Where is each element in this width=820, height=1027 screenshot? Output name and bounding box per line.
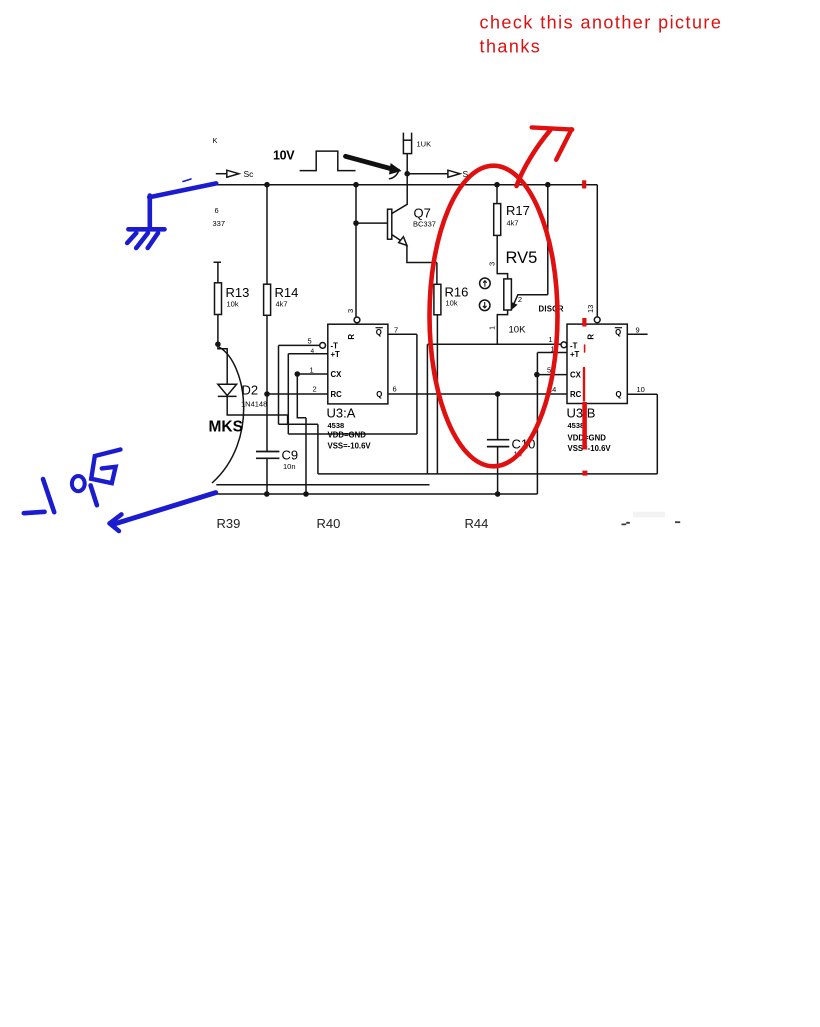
blue ground lead xyxy=(149,183,216,197)
svg-text:10: 10 xyxy=(637,385,645,394)
node dot top bus R17 xyxy=(494,182,500,188)
wire Q7 emitter to R16 xyxy=(392,235,437,285)
svg-text:6: 6 xyxy=(215,206,219,215)
svg-text:Q: Q xyxy=(376,390,382,399)
op-amp U3:A box xyxy=(328,324,388,404)
node dot R13 bottom xyxy=(215,341,221,347)
resistor 1UK top leads xyxy=(403,133,411,141)
svg-text:R16: R16 xyxy=(445,285,469,300)
svg-text:U3:A: U3:A xyxy=(327,406,356,421)
red arrowhead top bar xyxy=(532,127,573,129)
resistor R13 xyxy=(215,283,222,315)
svg-text:RC: RC xyxy=(570,390,582,399)
node dot collector S xyxy=(404,171,410,177)
capacitor C10 plates xyxy=(487,440,509,447)
svg-text:Q: Q xyxy=(615,328,621,337)
svg-text:CX: CX xyxy=(331,370,343,379)
wire Sc port lead xyxy=(216,173,227,175)
blue ground bar xyxy=(128,227,164,232)
svg-text:MKS: MKS xyxy=(209,419,243,436)
svg-text:-T: -T xyxy=(331,341,339,350)
U3:B -T pin circle xyxy=(561,342,567,348)
svg-text:+T: +T xyxy=(570,350,580,359)
red ellipse annotation xyxy=(430,166,558,467)
wire C10 vertical xyxy=(497,394,499,494)
wire VDD strike (pin7 to +T) xyxy=(288,354,417,434)
port arrow S xyxy=(448,170,460,177)
red dash column xyxy=(582,180,586,188)
RV5 adjust down circle xyxy=(479,300,490,311)
red arrow shaft xyxy=(517,130,551,186)
svg-text:2: 2 xyxy=(313,385,317,394)
svg-text:R: R xyxy=(347,334,356,340)
blue digit 6 xyxy=(91,450,120,484)
wire R17 top xyxy=(496,185,498,204)
node dot C10 top xyxy=(495,391,501,397)
wire -T A chain xyxy=(279,345,320,424)
svg-text:1: 1 xyxy=(310,366,314,375)
svg-text:R17: R17 xyxy=(506,203,530,218)
svg-text:U3:B: U3:B xyxy=(567,406,596,421)
blue ground hatch 1 xyxy=(127,233,136,243)
svg-text:13: 13 xyxy=(586,305,595,313)
svg-text:K: K xyxy=(213,136,218,145)
wire RV5 wiper chain xyxy=(514,185,548,305)
blue arrowhead barb up xyxy=(110,514,122,523)
U3:A -T pin circle xyxy=(320,343,326,349)
svg-text:4: 4 xyxy=(311,348,315,355)
wire bottom second horizontal xyxy=(216,484,429,486)
grey mark 2 xyxy=(675,521,680,523)
blue ground hatch 2 xyxy=(136,233,148,248)
blue digit 1 xyxy=(43,479,54,512)
node dot Q7 base xyxy=(353,220,359,226)
black annotation hook xyxy=(390,170,400,179)
svg-text:R40: R40 xyxy=(317,516,341,531)
svg-text:VSS=-10.6V: VSS=-10.6V xyxy=(568,444,612,453)
svg-text:4k7: 4k7 xyxy=(276,300,288,309)
transistor Q7 emitter arrowhead xyxy=(399,237,407,246)
svg-text:10k: 10k xyxy=(227,300,239,309)
svg-text:DISCR: DISCR xyxy=(539,305,564,314)
node dot CX A xyxy=(295,371,301,377)
svg-text:4538: 4538 xyxy=(328,421,345,430)
wire top supply bus xyxy=(216,185,598,317)
svg-text:1N4148: 1N4148 xyxy=(241,400,267,409)
wire D2 bottom chain xyxy=(227,396,318,474)
wire R13 leads xyxy=(214,262,228,384)
svg-text:Q: Q xyxy=(616,390,622,399)
svg-text:D2: D2 xyxy=(242,383,259,398)
blue ground hatch 3 xyxy=(148,233,158,248)
svg-text:Q7: Q7 xyxy=(414,206,431,221)
wire Q6 to RC B xyxy=(388,393,567,395)
port arrow Sc xyxy=(227,170,239,177)
grey smudge xyxy=(633,512,665,518)
black annotation arrow shaft xyxy=(346,156,395,169)
node dot top bus pin3 xyxy=(353,182,359,188)
svg-text:3: 3 xyxy=(346,309,355,313)
node dot bus C9 xyxy=(264,491,270,497)
svg-text:337: 337 xyxy=(213,219,226,228)
blue digit 0 xyxy=(72,476,85,491)
black annotation arrowhead xyxy=(390,164,401,174)
wire 10V pulse symbol xyxy=(300,151,356,171)
wire collector vertical xyxy=(392,154,407,214)
svg-text:C9: C9 xyxy=(282,448,299,463)
node dot CX B xyxy=(534,372,540,378)
transistor Q7 base bar xyxy=(388,209,392,239)
svg-text:R: R xyxy=(587,334,596,340)
svg-text:Q: Q xyxy=(376,328,382,337)
wire curved arc near D2 xyxy=(212,347,244,483)
wire RV5 bottom xyxy=(497,310,507,344)
svg-text:R13: R13 xyxy=(226,285,250,300)
wire R14 C9 vertical xyxy=(266,185,268,494)
blue ground stem xyxy=(148,196,153,230)
svg-text:check this another picture: check this another picture xyxy=(480,13,723,33)
svg-text:CX: CX xyxy=(570,371,582,380)
svg-text:3: 3 xyxy=(488,262,497,266)
U3:A top pin circle xyxy=(354,317,360,323)
red arrowhead right stroke xyxy=(556,129,571,160)
wire R16 bottom xyxy=(436,315,438,474)
wire -T bus to U3B xyxy=(427,344,561,474)
svg-text:BC337: BC337 xyxy=(413,220,436,229)
node dot bus CXchain xyxy=(303,491,309,497)
svg-text:RV5: RV5 xyxy=(506,249,538,267)
svg-text:thanks: thanks xyxy=(480,37,542,57)
svg-text:5: 5 xyxy=(308,337,312,346)
capacitor C9 plates xyxy=(256,452,279,459)
diode D2 xyxy=(218,384,237,396)
svg-text:VSS=-10.6V: VSS=-10.6V xyxy=(328,442,372,451)
wire U3A pin7 loop xyxy=(388,334,417,434)
svg-text:VDD=GND: VDD=GND xyxy=(328,431,367,440)
svg-text:R44: R44 xyxy=(465,516,489,531)
wire RC A left xyxy=(267,393,328,395)
svg-text:4k7: 4k7 xyxy=(507,219,519,228)
svg-text:6: 6 xyxy=(393,385,397,394)
potentiometer RV5 wiper arrow xyxy=(512,303,516,309)
blue arrowhead barb down xyxy=(110,523,119,531)
resistor R16 xyxy=(434,284,441,315)
potentiometer RV5 body xyxy=(504,279,512,310)
node dot top bus R14 xyxy=(264,182,270,188)
svg-text:4538: 4538 xyxy=(568,421,585,430)
RV5 adjust up circle xyxy=(480,278,491,289)
op-amp U3:B box xyxy=(567,324,627,403)
svg-text:10k: 10k xyxy=(446,299,458,308)
U3:B Qbar overline xyxy=(615,327,622,329)
wire S port lead from collector node xyxy=(407,173,448,175)
resistor R17 xyxy=(494,204,501,236)
wire CX A chain xyxy=(297,374,328,494)
svg-text:5: 5 xyxy=(547,366,551,375)
svg-text:RC: RC xyxy=(331,390,343,399)
svg-text:2: 2 xyxy=(518,295,522,304)
svg-text:10V: 10V xyxy=(273,149,295,163)
svg-text:1: 1 xyxy=(549,335,553,344)
svg-text:R39: R39 xyxy=(217,516,241,531)
blue tick xyxy=(183,179,191,182)
resistor 1UK body xyxy=(403,140,411,153)
svg-text:10K: 10K xyxy=(509,325,527,336)
wire U3B pin9 xyxy=(627,333,647,335)
wire bottom bus xyxy=(216,353,567,495)
svg-text:1: 1 xyxy=(488,326,497,330)
wire Q7 base xyxy=(356,185,388,317)
node dot bus C10 xyxy=(495,491,501,497)
svg-text:10n: 10n xyxy=(283,462,296,471)
wire R17 to RV5 xyxy=(497,235,507,279)
svg-text:Sc: Sc xyxy=(244,169,255,179)
resistor R14 xyxy=(264,284,271,315)
svg-text:7: 7 xyxy=(394,326,398,335)
blue comma xyxy=(91,485,97,505)
svg-text:9: 9 xyxy=(636,326,640,335)
blue minus sign xyxy=(24,512,45,513)
svg-text:+T: +T xyxy=(331,350,341,359)
svg-text:1UK: 1UK xyxy=(417,140,432,149)
svg-text:R14: R14 xyxy=(275,285,299,300)
U3:A Qbar overline xyxy=(376,327,383,329)
grey mark 1 xyxy=(622,523,630,525)
wire bottom mid horizontal xyxy=(318,394,657,474)
node dot top bus wiper xyxy=(545,182,551,188)
node dot RC A xyxy=(264,391,270,397)
U3:B top pin circle xyxy=(594,317,600,323)
blue arrow shaft xyxy=(113,493,216,525)
